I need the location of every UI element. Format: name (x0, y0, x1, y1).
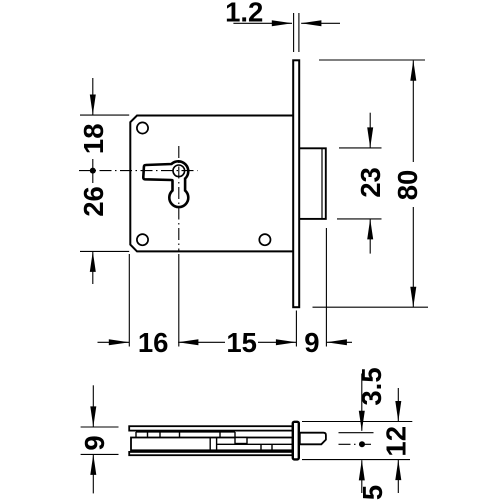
svg-text:9: 9 (304, 327, 319, 358)
svg-text:23: 23 (355, 167, 386, 198)
svg-text:5: 5 (357, 485, 388, 500)
svg-text:18: 18 (78, 124, 109, 155)
svg-text:15: 15 (226, 327, 257, 358)
svg-text:9: 9 (79, 435, 110, 450)
svg-text:3.5: 3.5 (356, 367, 387, 405)
svg-text:12: 12 (380, 426, 411, 457)
svg-text:26: 26 (78, 186, 109, 217)
svg-text:16: 16 (138, 327, 169, 358)
svg-text:80: 80 (392, 170, 423, 201)
